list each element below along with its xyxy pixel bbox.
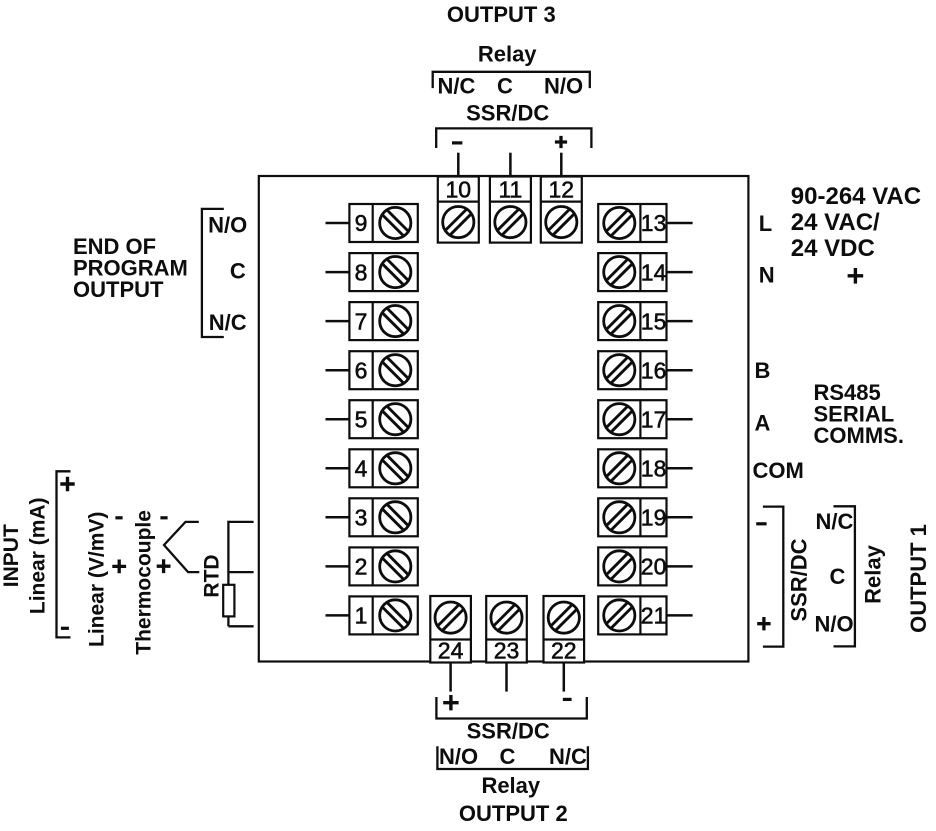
terminal 6 lead wire — [326, 369, 350, 372]
terminal 23 — [486, 596, 527, 664]
terminal 10 lead wire — [457, 153, 460, 176]
label COMMS. — [814, 423, 904, 448]
svg-text:90-264 VAC: 90-264 VAC — [791, 183, 921, 210]
label B (RS485) — [755, 358, 771, 383]
relay contacts bracket (output 3) — [433, 72, 590, 88]
label COM (RS485) — [753, 458, 804, 483]
terminal 21 — [598, 596, 666, 634]
terminal 16 — [598, 351, 666, 389]
terminal 15 lead wire — [667, 320, 693, 323]
label C (end of program relay) — [230, 258, 246, 283]
svg-text:11: 11 — [498, 176, 522, 202]
label N/O (output 1 relay) — [814, 612, 853, 637]
label 24 VAC/ — [791, 209, 880, 236]
label OUTPUT 1 (rotated) — [906, 524, 931, 633]
terminal 16 lead wire — [667, 369, 693, 372]
terminal 2 — [349, 547, 417, 585]
svg-text:5: 5 — [355, 406, 368, 432]
terminal 9 — [349, 204, 417, 242]
terminal 9 lead wire — [326, 222, 350, 225]
svg-text:N/O: N/O — [814, 612, 853, 637]
terminal 7 lead wire — [326, 320, 350, 323]
svg-text:24 VAC/: 24 VAC/ — [791, 209, 880, 236]
label N/C (output 2 relay) — [549, 744, 587, 769]
label L (line) — [759, 211, 772, 236]
svg-text:22: 22 — [551, 638, 577, 664]
terminal 12 — [541, 176, 582, 242]
label INPUT (rotated) — [0, 524, 23, 587]
svg-text:3: 3 — [355, 505, 368, 531]
svg-text:Linear (V/mV): Linear (V/mV) — [86, 512, 109, 647]
svg-text:N/C: N/C — [816, 509, 854, 534]
svg-text:Relay: Relay — [478, 42, 537, 67]
svg-text:OUTPUT 3: OUTPUT 3 — [447, 2, 556, 27]
svg-text:Relay: Relay — [481, 773, 540, 798]
terminal 3 — [349, 498, 417, 536]
terminal 13 lead wire — [667, 222, 693, 225]
svg-text:12: 12 — [549, 176, 575, 202]
minus sign (thermocouple) — [160, 516, 167, 519]
label END OF — [73, 234, 156, 259]
minus sign (terminal 22) — [563, 698, 572, 701]
terminal 1 — [349, 596, 417, 634]
linear mA polarity bracket — [57, 471, 71, 637]
plus sign (thermocouple) — [157, 559, 171, 573]
terminal 5 — [349, 400, 417, 438]
terminal 8 lead wire — [326, 271, 350, 274]
terminal 5 lead wire — [326, 418, 350, 421]
plus sign (linear mA) — [60, 477, 74, 491]
terminal 7 — [349, 302, 417, 340]
label Relay (output 3) — [478, 42, 537, 67]
label C (output 3 relay) — [497, 74, 513, 99]
relay contacts bracket (output 1) — [834, 506, 855, 646]
svg-text:Thermocouple: Thermocouple — [133, 510, 156, 655]
label 90-264 VAC — [791, 183, 921, 210]
label N/C (end of program relay) — [209, 310, 247, 335]
svg-text:18: 18 — [641, 456, 667, 482]
svg-text:6: 6 — [355, 357, 368, 383]
plus sign (terminal 24) — [443, 695, 458, 710]
terminal 13 — [598, 204, 666, 242]
svg-text:14: 14 — [641, 259, 667, 285]
svg-text:Linear (mA): Linear (mA) — [27, 497, 50, 614]
terminal 14 — [598, 253, 666, 291]
terminal 18 — [598, 449, 666, 487]
label Linear (mA) (rotated) — [27, 497, 50, 614]
RTD wire to terminal 2 — [228, 571, 253, 573]
svg-text:COMMS.: COMMS. — [814, 423, 904, 448]
plus sign (terminal 21) — [757, 617, 770, 630]
svg-text:N/C: N/C — [549, 744, 587, 769]
plus sign (24 VDC supply) — [848, 268, 864, 284]
svg-text:OUTPUT 1: OUTPUT 1 — [906, 524, 931, 633]
terminal 1 lead wire — [326, 614, 350, 617]
label N/C (output 1 relay) — [816, 509, 854, 534]
relay contacts bracket (output 2) — [437, 746, 588, 769]
terminal 15 — [598, 302, 666, 340]
svg-text:1: 1 — [355, 603, 368, 629]
plus sign (terminal 12) — [555, 136, 567, 148]
svg-text:17: 17 — [641, 406, 667, 432]
label Thermocouple (rotated) — [133, 510, 156, 655]
SSR/DC polarity bracket (output 1) — [763, 507, 783, 647]
svg-text:C: C — [830, 564, 846, 589]
svg-text:7: 7 — [355, 308, 368, 334]
label RTD (rotated) — [201, 554, 224, 597]
svg-text:N/O: N/O — [544, 74, 583, 99]
label Relay (output 1, rotated) — [861, 544, 886, 603]
svg-text:19: 19 — [641, 505, 667, 531]
label 24 VDC — [791, 235, 875, 262]
terminal 19 lead wire — [667, 516, 693, 519]
svg-text:C: C — [499, 744, 515, 769]
svg-text:10: 10 — [446, 176, 472, 202]
label A (RS485) — [755, 411, 771, 436]
svg-text:24: 24 — [438, 638, 464, 664]
svg-text:15: 15 — [641, 308, 667, 334]
terminal 10 — [438, 176, 479, 242]
label N/O (output 2 relay) — [439, 744, 478, 769]
terminal 18 lead wire — [667, 467, 693, 470]
svg-text:L: L — [759, 211, 772, 236]
label OUTPUT 3 — [447, 2, 556, 27]
svg-text:4: 4 — [355, 456, 368, 482]
label SSR/DC (output 1, rotated) — [787, 538, 812, 621]
svg-text:24 VDC: 24 VDC — [791, 235, 875, 262]
terminal 2 lead wire — [326, 565, 350, 568]
terminal 19 — [598, 498, 666, 536]
minus sign (linear mA) — [61, 627, 69, 630]
terminal 14 lead wire — [667, 271, 693, 274]
RTD wire below resistor — [227, 616, 229, 626]
label C (output 2 relay) — [499, 744, 515, 769]
label SERIAL — [814, 402, 895, 427]
thermocouple junction symbol — [164, 522, 199, 572]
label Linear (V/mV) (rotated) — [86, 512, 109, 647]
end-of-program contacts bracket — [202, 209, 224, 337]
svg-text:N/C: N/C — [437, 74, 475, 99]
svg-text:2: 2 — [355, 554, 368, 580]
controller rear-panel outline — [259, 176, 749, 662]
svg-text:20: 20 — [641, 554, 667, 580]
plus sign (linear V/mV) — [112, 560, 126, 574]
svg-text:N/C: N/C — [209, 310, 247, 335]
terminal 21 lead wire — [667, 614, 693, 617]
SSR/DC polarity bracket (output 2) — [436, 697, 586, 719]
label RS485 — [814, 380, 881, 405]
svg-text:N/O: N/O — [208, 212, 247, 237]
label OUTPUT 2 — [459, 801, 568, 826]
svg-text:8: 8 — [355, 259, 368, 285]
label N/O (output 3 relay) — [544, 74, 583, 99]
terminal 12 lead wire — [560, 153, 563, 176]
terminal 11 lead wire — [509, 153, 512, 176]
svg-text:SSR/DC: SSR/DC — [466, 101, 549, 126]
svg-text:13: 13 — [641, 210, 667, 236]
svg-text:COM: COM — [753, 458, 804, 483]
label OUTPUT — [73, 277, 164, 302]
label N/C (output 3 relay) — [437, 74, 475, 99]
terminal 20 — [598, 547, 666, 585]
svg-text:RTD: RTD — [201, 554, 224, 597]
svg-text:C: C — [230, 258, 246, 283]
minus sign (linear V/mV) — [115, 516, 122, 519]
terminal 20 lead wire — [667, 565, 693, 568]
svg-text:OUTPUT 2: OUTPUT 2 — [459, 801, 568, 826]
svg-text:N: N — [759, 262, 775, 287]
terminal 8 — [349, 253, 417, 291]
svg-text:21: 21 — [641, 603, 667, 629]
terminal 17 — [598, 400, 666, 438]
terminal 4 — [349, 449, 417, 487]
RTD sensor element (resistor) — [223, 585, 234, 617]
label SSR/DC (output 2) — [467, 718, 550, 743]
svg-text:C: C — [497, 74, 513, 99]
terminal 23 lead wire — [505, 663, 508, 692]
label SSR/DC (output 3) — [466, 101, 549, 126]
svg-text:23: 23 — [494, 638, 520, 664]
svg-text:OUTPUT: OUTPUT — [73, 277, 164, 302]
svg-text:B: B — [755, 358, 771, 383]
RTD wire to terminal 3 — [228, 521, 253, 523]
terminal 22 — [544, 596, 585, 664]
svg-text:Relay: Relay — [861, 544, 886, 603]
svg-text:16: 16 — [641, 357, 667, 383]
RTD wire to terminal 1 — [228, 625, 253, 627]
minus sign (terminal 10) — [452, 141, 462, 144]
svg-text:9: 9 — [355, 210, 368, 236]
terminal 11 — [490, 176, 531, 242]
svg-text:SSR/DC: SSR/DC — [787, 538, 812, 621]
label N (neutral) — [759, 262, 775, 287]
label PROGRAM — [73, 256, 188, 281]
label N/O (end of program relay) — [208, 212, 247, 237]
terminal 22 lead wire — [563, 663, 566, 692]
label Relay (output 2) — [481, 773, 540, 798]
svg-text:N/O: N/O — [439, 744, 478, 769]
svg-text:A: A — [755, 411, 771, 436]
minus sign (terminal 19) — [756, 522, 766, 525]
terminal 24 — [430, 596, 471, 664]
label C (output 1 relay) — [830, 564, 846, 589]
terminal 6 — [349, 351, 417, 389]
terminal 17 lead wire — [667, 418, 693, 421]
terminal 3 lead wire — [326, 516, 350, 519]
svg-text:INPUT: INPUT — [0, 524, 23, 587]
terminal 24 lead wire — [449, 663, 452, 692]
svg-text:SSR/DC: SSR/DC — [467, 718, 550, 743]
terminal 4 lead wire — [326, 467, 350, 470]
SSR/DC polarity bracket (output 3) — [436, 128, 591, 148]
RTD vertical wire — [227, 521, 229, 586]
